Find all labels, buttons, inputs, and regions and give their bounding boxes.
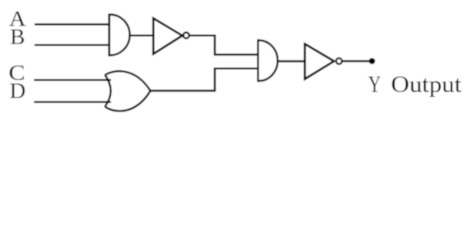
svg-text:Output: Output xyxy=(391,72,462,97)
svg-text:B: B xyxy=(10,24,25,49)
svg-text:D: D xyxy=(10,78,26,103)
svg-text:Y: Y xyxy=(368,73,381,98)
